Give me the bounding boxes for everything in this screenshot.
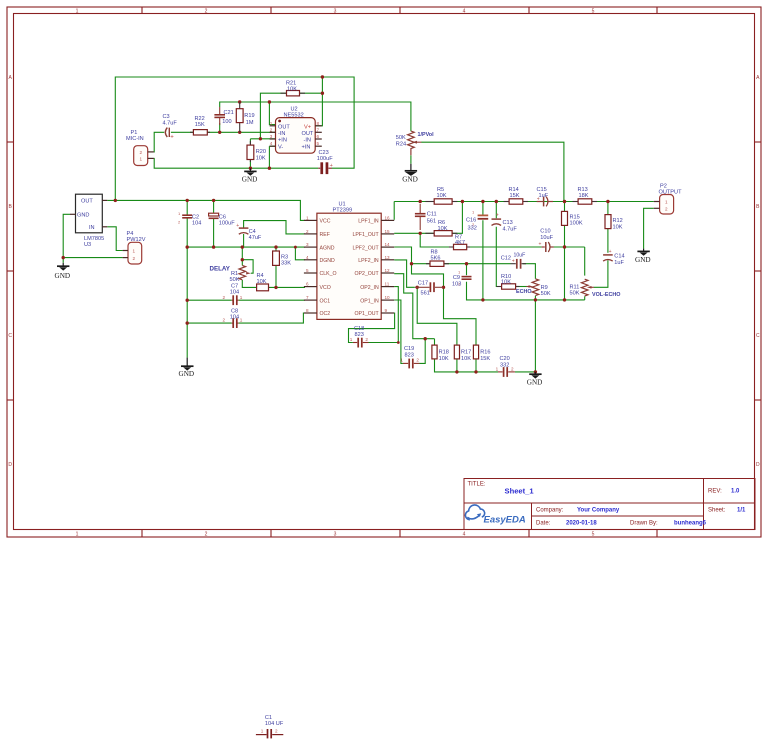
- wire R8 row to C12 and R9: [412, 264, 536, 279]
- wire U3 GND to P4 pin2 and ground: [63, 214, 122, 262]
- svg-text:R11: R11: [570, 284, 580, 290]
- svg-text:18K: 18K: [579, 193, 589, 199]
- svg-text:2: 2: [133, 256, 136, 261]
- connector P4 PW12V: [123, 231, 146, 264]
- svg-text:OP1_IN: OP1_IN: [360, 298, 379, 304]
- svg-text:50K: 50K: [396, 135, 406, 141]
- wire C21 bottom lead: [219, 123, 221, 132]
- svg-text:C19: C19: [404, 346, 414, 352]
- svg-text:103: 103: [452, 282, 461, 288]
- svg-text:IN: IN: [89, 225, 95, 231]
- svg-text:OUT: OUT: [302, 131, 314, 137]
- svg-text:MIC-IN: MIC-IN: [126, 136, 144, 142]
- svg-text:REV:: REV:: [708, 489, 722, 495]
- wire node R20 top / U2 pin3: [250, 138, 275, 140]
- wire V+ riser to U2 pin8: [315, 77, 322, 126]
- potentiometer R11: [570, 279, 594, 296]
- svg-text:2020-01-18: 2020-01-18: [566, 521, 597, 527]
- svg-text:2: 2: [140, 150, 143, 155]
- wire R17 bottom: [456, 359, 458, 372]
- svg-text:OUT: OUT: [81, 199, 93, 205]
- wire R7 row from C11 bottom: [420, 233, 585, 247]
- svg-text:GND: GND: [179, 370, 195, 378]
- resistor R19: [236, 102, 254, 132]
- svg-text:1: 1: [261, 729, 264, 734]
- capacitor C13: [492, 213, 518, 233]
- op-amp U2 NE5532: [270, 107, 322, 154]
- svg-text:100K: 100K: [570, 221, 583, 227]
- wire R8 node drop to C17 right: [412, 264, 444, 288]
- svg-text:1: 1: [306, 215, 309, 220]
- wire summing bus y300: [467, 282, 585, 300]
- capacitor C9: [452, 270, 472, 288]
- svg-text:C12: C12: [501, 256, 511, 262]
- svg-text:1: 1: [133, 249, 136, 254]
- svg-text:1uF: 1uF: [614, 260, 624, 266]
- svg-text:+: +: [609, 249, 612, 255]
- wire R11 top riser: [584, 247, 586, 276]
- svg-text:3: 3: [270, 134, 273, 139]
- svg-text:C9: C9: [453, 275, 460, 281]
- svg-text:Date:: Date:: [536, 521, 551, 527]
- wire C7 row to U1 OC1: [187, 299, 305, 301]
- svg-text:50K: 50K: [570, 291, 580, 297]
- svg-text:R14: R14: [509, 187, 519, 193]
- svg-text:EasyEDA: EasyEDA: [484, 515, 526, 526]
- svg-text:R24: R24: [396, 142, 406, 148]
- capacitor C21: [214, 107, 233, 125]
- svg-text:OP2_OUT: OP2_OUT: [354, 271, 379, 277]
- resistor R17: [454, 345, 471, 362]
- wire R9 bottom to main ground riser: [534, 296, 536, 372]
- svg-text:OC2: OC2: [320, 311, 331, 317]
- svg-text:1: 1: [350, 337, 353, 342]
- svg-text:GND: GND: [635, 256, 651, 264]
- svg-text:4: 4: [306, 255, 309, 260]
- resistor R18: [432, 345, 449, 362]
- svg-text:104: 104: [230, 290, 239, 296]
- svg-text:R12: R12: [613, 218, 623, 224]
- svg-text:2: 2: [205, 532, 208, 538]
- svg-text:C10: C10: [540, 229, 550, 235]
- wire AGND rail: [187, 246, 305, 248]
- svg-text:823: 823: [405, 352, 414, 358]
- wire U1 OP2_OUT staircase to R18: [394, 274, 434, 345]
- svg-text:50K: 50K: [230, 277, 240, 283]
- wire U1 LPF1_OUT row R6: [394, 202, 462, 234]
- svg-text:C: C: [756, 333, 760, 339]
- svg-text:LPF2_OUT: LPF2_OUT: [352, 245, 379, 251]
- wire C6 column: [213, 200, 215, 247]
- svg-text:Drawn By:: Drawn By:: [630, 521, 658, 527]
- svg-text:2: 2: [416, 358, 419, 363]
- svg-text:C23: C23: [319, 150, 329, 156]
- svg-text:Company:: Company:: [536, 508, 564, 514]
- svg-text:+: +: [236, 223, 239, 229]
- resistor R7: [449, 234, 470, 249]
- svg-text:+: +: [170, 134, 174, 140]
- resistor R15: [562, 211, 583, 226]
- svg-text:100: 100: [222, 119, 231, 125]
- resistor R6: [425, 220, 457, 236]
- svg-text:GND: GND: [55, 272, 71, 280]
- svg-text:15K: 15K: [480, 356, 490, 362]
- svg-text:-IN: -IN: [304, 138, 311, 144]
- ground below R24: [402, 164, 418, 184]
- svg-text:R15: R15: [570, 214, 580, 220]
- wire R20 leads: [249, 139, 251, 145]
- capacitor C20: [496, 356, 515, 377]
- wire R1 wiper loop: [242, 260, 253, 274]
- svg-text:6: 6: [306, 282, 309, 287]
- svg-text:100uF: 100uF: [317, 156, 333, 162]
- svg-text:ECHO: ECHO: [516, 289, 532, 295]
- svg-text:REF: REF: [320, 232, 330, 238]
- svg-text:R16: R16: [480, 350, 490, 356]
- ground below C7/C8 rail: [179, 358, 195, 378]
- title block: [464, 479, 755, 530]
- svg-text:10K: 10K: [613, 224, 623, 230]
- svg-text:R22: R22: [195, 116, 205, 122]
- svg-text:1: 1: [140, 157, 143, 162]
- capacitor C19: [400, 346, 419, 368]
- resistor R4: [256, 273, 269, 291]
- svg-text:10K: 10K: [439, 356, 449, 362]
- connector P1 MIC-IN: [126, 130, 154, 165]
- wire U1 LPF2_IN to C17 left: [394, 260, 415, 287]
- svg-text:R13: R13: [578, 187, 588, 193]
- svg-text:3: 3: [334, 532, 337, 538]
- svg-text:+IN: +IN: [278, 138, 287, 144]
- wire U1 OP1_OUT to C18 pin1: [349, 313, 395, 343]
- svg-text:561: 561: [421, 291, 430, 297]
- svg-text:1: 1: [76, 532, 79, 538]
- svg-text:3: 3: [334, 8, 337, 14]
- wire R22 to U2 pin2: [207, 131, 275, 133]
- svg-text:10K: 10K: [257, 279, 267, 285]
- svg-text:2: 2: [365, 337, 368, 342]
- main ground symbol: [527, 372, 543, 387]
- svg-text:5K6: 5K6: [431, 255, 441, 261]
- svg-text:10K: 10K: [438, 226, 448, 232]
- svg-text:OP2_IN: OP2_IN: [360, 285, 379, 291]
- svg-text:R5: R5: [437, 187, 444, 193]
- svg-text:C3: C3: [163, 114, 170, 120]
- svg-text:15K: 15K: [510, 193, 520, 199]
- svg-text:8: 8: [306, 308, 309, 313]
- svg-text:OC1: OC1: [320, 298, 331, 304]
- svg-text:5: 5: [317, 141, 320, 146]
- svg-text:4.7uF: 4.7uF: [503, 227, 518, 233]
- capacitor C12: [501, 253, 526, 269]
- connector P2 OUTPUT: [654, 183, 682, 214]
- svg-text:15: 15: [385, 229, 391, 234]
- regulator U3 LM7805: [70, 194, 107, 248]
- svg-text:10: 10: [385, 295, 391, 300]
- wire R1 top lead: [241, 247, 243, 265]
- svg-text:AGND: AGND: [320, 245, 335, 251]
- svg-text:332: 332: [500, 362, 509, 368]
- svg-text:1/PVol: 1/PVol: [418, 132, 435, 138]
- svg-text:Sheet_1: Sheet_1: [505, 487, 535, 496]
- potentiometer R24: [396, 131, 422, 155]
- svg-text:47uF: 47uF: [249, 235, 262, 241]
- svg-text:LPF1_OUT: LPF1_OUT: [352, 232, 379, 238]
- svg-text:823: 823: [355, 332, 364, 338]
- svg-text:GND: GND: [77, 213, 89, 219]
- svg-text:C8: C8: [231, 309, 238, 315]
- wire U1 LPF2_OUT to R8: [394, 247, 411, 264]
- capacitor C14: [603, 249, 624, 266]
- svg-text:Your Company: Your Company: [577, 508, 620, 514]
- svg-text:U3: U3: [84, 242, 91, 248]
- frame ruler labels: [8, 8, 760, 537]
- svg-text:2: 2: [511, 367, 514, 372]
- wire R21 right to V+ riser: [300, 92, 323, 94]
- svg-text:2: 2: [270, 127, 273, 132]
- ground below P2: [635, 249, 651, 264]
- svg-text:OP1_OUT: OP1_OUT: [354, 311, 379, 317]
- wire U1 DGND riser: [295, 247, 305, 260]
- svg-text:GND: GND: [242, 175, 258, 183]
- svg-text:10uF: 10uF: [540, 235, 553, 241]
- junction dots audio bus: [419, 200, 610, 203]
- svg-text:1: 1: [76, 8, 79, 14]
- resistor R22: [190, 116, 210, 135]
- svg-text:9: 9: [385, 308, 388, 313]
- svg-text:561: 561: [427, 218, 436, 224]
- svg-text:VCC: VCC: [320, 219, 331, 225]
- svg-text:14: 14: [385, 242, 391, 247]
- ground below R20: [242, 168, 258, 183]
- svg-text:DELAY: DELAY: [210, 265, 231, 272]
- wire C21 top feedback bus to R24 top: [220, 102, 411, 131]
- wire R24 bottom to ground: [410, 155, 412, 164]
- svg-text:7: 7: [306, 295, 309, 300]
- capacitor C16: [466, 210, 488, 232]
- svg-text:104 UF: 104 UF: [265, 721, 284, 727]
- svg-text:CLK_O: CLK_O: [320, 271, 337, 277]
- svg-text:2: 2: [665, 207, 668, 212]
- wire R21 left to junction: [260, 93, 286, 139]
- resistor R20: [247, 141, 266, 162]
- svg-text:1: 1: [665, 200, 668, 205]
- wire R1 bottom to R4 to U1 VCO: [242, 280, 305, 287]
- svg-text:2: 2: [205, 8, 208, 14]
- capacitor C10: [539, 229, 554, 252]
- wire +5V top loop to C23 right: [115, 77, 354, 200]
- capacitor C4: [236, 223, 262, 241]
- svg-text:LPF2_IN: LPF2_IN: [358, 258, 379, 264]
- svg-text:5: 5: [306, 268, 309, 273]
- svg-text:C18: C18: [354, 326, 364, 332]
- wire U1 OP1_IN to C19 pin1: [394, 300, 403, 363]
- svg-text:C16: C16: [466, 217, 476, 223]
- svg-text:R6: R6: [438, 220, 445, 226]
- svg-text:C: C: [8, 333, 12, 339]
- svg-text:+: +: [539, 242, 542, 248]
- capacitor C8: [223, 309, 243, 329]
- junction dots +5V and top loop: [114, 75, 324, 202]
- capacitor C1 (bottom of page): [256, 715, 284, 738]
- svg-text:104: 104: [192, 221, 201, 227]
- capacitor C7: [223, 284, 243, 306]
- svg-text:C7: C7: [231, 284, 238, 290]
- svg-text:10K: 10K: [256, 155, 266, 161]
- svg-text:50K: 50K: [541, 291, 551, 297]
- capacitor C18: [350, 326, 369, 348]
- svg-text:bunheang6: bunheang6: [674, 521, 707, 527]
- svg-text:+: +: [330, 163, 333, 169]
- svg-text:OUTPUT: OUTPUT: [659, 189, 683, 195]
- resistor R10: [497, 274, 520, 289]
- wire C9 top lead: [466, 264, 468, 276]
- svg-text:1/1: 1/1: [737, 508, 746, 514]
- svg-text:C17: C17: [418, 280, 428, 286]
- svg-text:+IN: +IN: [302, 145, 311, 151]
- svg-text:7: 7: [317, 127, 320, 132]
- svg-text:PT2399: PT2399: [333, 207, 353, 213]
- svg-text:10K: 10K: [437, 193, 447, 199]
- svg-text:V+: V+: [304, 124, 311, 130]
- junction dots power/left section: [62, 245, 297, 324]
- wire C13 column to R10: [496, 202, 501, 287]
- svg-text:D: D: [8, 462, 12, 468]
- wire R3 leads: [275, 247, 277, 287]
- resistor R3: [273, 251, 292, 267]
- svg-text:4: 4: [463, 8, 466, 14]
- svg-text:VOL-ECHO: VOL-ECHO: [592, 292, 620, 298]
- svg-text:R18: R18: [439, 350, 449, 356]
- wire C14 bottom to R11 wiper: [594, 260, 608, 287]
- svg-text:33K: 33K: [281, 260, 291, 266]
- wire U2 pin1 riser to feedback bus: [269, 102, 275, 125]
- svg-text:LPF1_IN: LPF1_IN: [358, 219, 379, 225]
- junction dots mic section: [218, 100, 271, 170]
- svg-text:C13: C13: [503, 220, 513, 226]
- svg-text:4: 4: [270, 141, 273, 146]
- resistor R21: [281, 80, 306, 96]
- svg-text:1uF: 1uF: [539, 193, 549, 199]
- svg-text:R9: R9: [541, 285, 548, 291]
- svg-text:10K: 10K: [287, 86, 297, 92]
- svg-text:1: 1: [400, 358, 403, 363]
- svg-text:10K: 10K: [461, 356, 471, 362]
- capacitor C2: [178, 211, 201, 227]
- potentiometer R1: [230, 265, 251, 283]
- capacitor C11: [415, 204, 437, 230]
- sheet border frame: [7, 7, 761, 537]
- svg-text:332: 332: [468, 225, 477, 231]
- svg-text:1: 1: [240, 318, 243, 323]
- wire C2 column: [186, 200, 188, 357]
- potentiometer R9: [526, 279, 551, 297]
- svg-text:8: 8: [317, 121, 320, 126]
- svg-text:C14: C14: [614, 254, 624, 260]
- svg-text:1.0: 1.0: [731, 489, 740, 495]
- svg-text:6: 6: [317, 134, 320, 139]
- svg-text:1M: 1M: [246, 120, 254, 126]
- wire U2 pin4 V- drop: [269, 146, 275, 168]
- junction dots filter network: [397, 232, 566, 374]
- wire bottom RC bus: [435, 359, 536, 372]
- wire C17 right down to R16: [444, 287, 477, 345]
- svg-text:D: D: [756, 462, 760, 468]
- wire C8 row to U1 OC2: [187, 313, 305, 323]
- svg-text:12: 12: [385, 268, 391, 273]
- svg-text:10K: 10K: [501, 279, 511, 285]
- wire U1 OP2_IN to C18 pin2: [368, 287, 398, 343]
- ground at U3: [55, 263, 71, 280]
- svg-text:+: +: [496, 213, 499, 219]
- svg-text:C11: C11: [427, 212, 437, 218]
- capacitor C17: [415, 280, 444, 296]
- svg-text:OUT: OUT: [278, 124, 290, 130]
- svg-text:10uF: 10uF: [514, 253, 526, 259]
- resistor R8: [426, 249, 449, 266]
- svg-text:1: 1: [240, 295, 243, 300]
- wire +5V bus from U3 OUT to U1 VCC: [107, 200, 305, 220]
- svg-text:5: 5: [592, 532, 595, 538]
- svg-text:C21: C21: [224, 110, 234, 116]
- wire U3 IN to P4 pin1: [107, 227, 122, 251]
- svg-text:NE5532: NE5532: [284, 113, 304, 119]
- wire P1 pin2 to C3: [154, 132, 164, 152]
- resistor R13: [573, 187, 598, 204]
- wire audio bus row: [394, 201, 654, 203]
- svg-text:15K: 15K: [195, 122, 205, 128]
- wire C17 left node down to R17: [417, 287, 457, 345]
- svg-text:DGND: DGND: [320, 258, 336, 264]
- svg-text:4K7: 4K7: [455, 240, 465, 246]
- resistor R5: [425, 187, 457, 204]
- svg-text:2: 2: [306, 229, 309, 234]
- svg-text:2: 2: [223, 318, 226, 323]
- wire C3 to R22: [171, 131, 194, 133]
- svg-text:100uF: 100uF: [219, 221, 235, 227]
- svg-text:1: 1: [270, 121, 273, 126]
- capacitor C6: [209, 213, 236, 227]
- wire C19 pin2 riser: [419, 339, 425, 364]
- svg-text:3: 3: [306, 242, 309, 247]
- wire R12 column: [607, 202, 609, 253]
- svg-text:R20: R20: [256, 149, 266, 155]
- EasyEDA logo: [465, 505, 525, 526]
- svg-text:PW12V: PW12V: [127, 237, 146, 243]
- svg-text:2: 2: [223, 295, 226, 300]
- wire U1 LPF1_IN riser: [393, 202, 395, 220]
- svg-text:C20: C20: [500, 356, 510, 362]
- svg-text:VCO: VCO: [320, 285, 331, 291]
- svg-text:-IN: -IN: [278, 131, 285, 137]
- svg-text:16: 16: [385, 215, 391, 220]
- svg-text:5: 5: [592, 8, 595, 14]
- svg-text:R17: R17: [461, 350, 471, 356]
- svg-text:GND: GND: [402, 175, 418, 183]
- svg-text:4.7uF: 4.7uF: [163, 121, 178, 127]
- svg-text:GND: GND: [527, 379, 543, 387]
- svg-text:C15: C15: [537, 187, 547, 193]
- resistor R14: [504, 187, 528, 204]
- capacitor C15: [537, 187, 554, 207]
- wire R16 bottom: [475, 359, 477, 372]
- svg-text:Sheet:: Sheet:: [708, 508, 726, 514]
- resistor R12: [605, 215, 623, 231]
- wire R11 bottom lead: [584, 296, 586, 300]
- svg-text:+: +: [512, 258, 515, 264]
- wire R10 to R9 wiper: [516, 286, 527, 288]
- svg-text:13: 13: [385, 255, 391, 260]
